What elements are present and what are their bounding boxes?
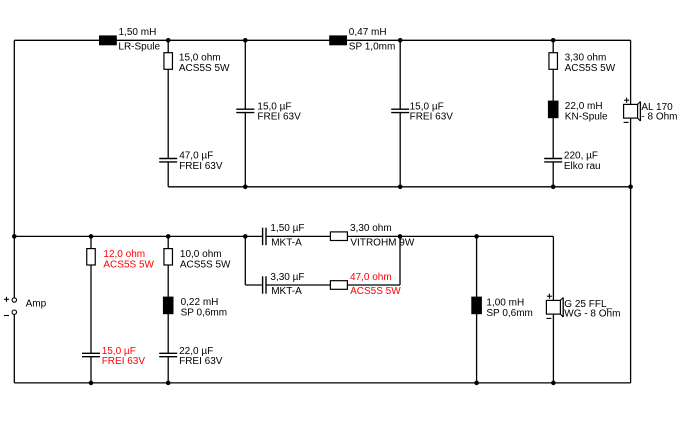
wire: [244, 40, 246, 109]
svg-text:Amp: Amp: [26, 299, 47, 310]
svg-text:ACS5S 5W: ACS5S 5W: [565, 63, 616, 74]
capacitor 47,0 uF FREI 63V: [159, 159, 177, 162]
wire: [167, 357, 169, 383]
inductor 22,0 mH KN-Spule: [548, 101, 559, 119]
node: [89, 381, 94, 386]
svg-text:SP 0,6mm: SP 0,6mm: [181, 307, 228, 318]
amp terminal +: [4, 297, 17, 302]
svg-text:3,30 ohm: 3,30 ohm: [350, 223, 392, 234]
node: [166, 38, 171, 43]
svg-text:- 8 Ohm: - 8 Ohm: [641, 112, 677, 123]
svg-text:0,47 mH: 0,47 mH: [349, 27, 387, 38]
svg-text:Elko rau: Elko rau: [564, 161, 601, 172]
svg-text:15,0 µF: 15,0 µF: [257, 101, 291, 112]
label resistor 12 ohm (red): [103, 249, 154, 270]
node: [166, 381, 171, 386]
svg-text:3,30 ohm: 3,30 ohm: [565, 52, 607, 63]
svg-text:1,50 µF: 1,50 µF: [270, 223, 304, 234]
resistor 3,30 ohm ACS5S 5W: [549, 53, 558, 70]
svg-text:3,30 µF: 3,30 µF: [270, 272, 304, 283]
node: [398, 234, 403, 239]
wire parallel branch left drop: [244, 236, 246, 285]
wire: [552, 162, 554, 187]
node: [166, 234, 171, 239]
capacitor 3,30 uF MKT-A: [263, 276, 266, 293]
svg-text:1,00 mH: 1,00 mH: [486, 298, 524, 309]
wire: [476, 236, 478, 383]
speaker G 25 FFL_WG - 8 Ohm: [546, 294, 563, 319]
wire: [399, 40, 401, 109]
label capacitor 15 uF second: [410, 101, 454, 122]
wire: [399, 113, 401, 187]
svg-text:SP 1,0mm: SP 1,0mm: [349, 41, 396, 52]
svg-text:12,0 ohm: 12,0 ohm: [103, 249, 145, 260]
wire from tweeter: [552, 314, 554, 383]
wire right column lower: [630, 118, 632, 383]
svg-text:1,50 mH: 1,50 mH: [119, 27, 157, 38]
node: [243, 185, 248, 190]
svg-text:47,0 µF: 47,0 µF: [179, 151, 213, 162]
svg-text:KN-Spule: KN-Spule: [565, 112, 608, 123]
node: [243, 38, 248, 43]
node: [551, 381, 556, 386]
svg-text:WG - 8 Ohm: WG - 8 Ohm: [564, 309, 620, 320]
wire: [167, 69, 169, 158]
wire left column lower: [13, 314, 15, 383]
node: [551, 185, 556, 190]
node: [12, 234, 17, 239]
resistor 3,30 ohm VITROHM 9W: [330, 232, 347, 241]
label capacitor 15 uF (red): [102, 346, 146, 367]
svg-text:FREI 63V: FREI 63V: [257, 112, 301, 123]
label resistor 15 ohm: [179, 52, 230, 73]
svg-text:220, µF: 220, µF: [564, 151, 598, 162]
wire: [245, 284, 262, 286]
capacitor 15,0 uF FREI 63V (first): [236, 109, 254, 112]
label capacitor 22 uF: [179, 346, 223, 367]
wire: [90, 265, 92, 353]
resistor 47,0 ohm ACS5S 5W: [330, 281, 347, 290]
svg-text:ACS5S 5W: ACS5S 5W: [180, 259, 231, 270]
label inductor 0,22 mH: [181, 297, 228, 318]
node: [551, 38, 556, 43]
svg-text:MKT-A: MKT-A: [271, 237, 302, 248]
svg-text:FREI 63V: FREI 63V: [410, 112, 454, 123]
svg-text:22,0 µF: 22,0 µF: [179, 346, 213, 357]
amp terminal -: [4, 310, 17, 316]
node: [243, 234, 248, 239]
svg-text:47,0 ohm: 47,0 ohm: [350, 272, 392, 283]
svg-text:VITROHM 9W: VITROHM 9W: [350, 237, 414, 248]
wire bottom-section feed rail left: [14, 235, 262, 237]
svg-text:22,0 mH: 22,0 mH: [565, 101, 603, 112]
svg-text:LR-Spule: LR-Spule: [118, 41, 160, 52]
wire bottom rail: [14, 382, 630, 384]
wire: [167, 265, 169, 353]
capacitor 1,50 uF MKT-A: [263, 228, 266, 245]
node: [474, 234, 479, 239]
node: [628, 185, 633, 190]
resistor 10,0 ohm ACS5S 5W: [164, 249, 173, 265]
label capacitor 47 uF: [179, 151, 223, 172]
svg-text:FREI 63V: FREI 63V: [179, 161, 223, 172]
wire: [167, 236, 169, 248]
capacitor 220 uF Elko rau: [544, 159, 562, 162]
node: [398, 185, 403, 190]
wire bottom-section feed rail right: [266, 235, 553, 237]
wire: [552, 40, 554, 158]
wire top-section return rail: [168, 186, 630, 188]
svg-text:FREI 63V: FREI 63V: [179, 356, 223, 367]
resistor 12,0 ohm ACS5S 5W: [87, 249, 96, 265]
capacitor 15,0 uF FREI 63V (second): [391, 109, 409, 112]
svg-text:ACS5S 5W: ACS5S 5W: [350, 286, 401, 297]
svg-text:15,0 ohm: 15,0 ohm: [179, 52, 221, 63]
inductor 0,22 mH SP 0,6mm: [163, 297, 174, 315]
wire: [244, 113, 246, 187]
wire: [90, 357, 92, 383]
svg-text:10,0 ohm: 10,0 ohm: [180, 249, 222, 260]
resistor 15,0 ohm ACS5S 5W: [164, 53, 173, 70]
capacitor 15,0 uF FREI 63V (red): [82, 353, 100, 356]
svg-text:SP 0,6mm: SP 0,6mm: [486, 308, 533, 319]
wire: [266, 284, 400, 286]
svg-text:15,0 µF: 15,0 µF: [102, 346, 136, 357]
label inductor 1,00 mH: [486, 298, 533, 319]
svg-text:ACS5S 5W: ACS5S 5W: [103, 259, 154, 270]
node: [89, 234, 94, 239]
wire right column to speaker: [630, 40, 632, 104]
svg-text:FREI 63V: FREI 63V: [102, 356, 146, 367]
svg-text:0,22 mH: 0,22 mH: [181, 297, 219, 308]
inductor 1,00 mH SP 0,6mm: [471, 297, 482, 315]
wire parallel branch right riser: [399, 236, 401, 285]
node: [474, 381, 479, 386]
speaker AL 170 - 8 Ohm: [624, 98, 641, 123]
label resistor 10 ohm: [180, 249, 231, 270]
node: [398, 38, 403, 43]
label resistor 3,30 ohm: [565, 52, 616, 73]
wire: [167, 40, 169, 52]
wire: [167, 162, 169, 187]
wire top rail: [14, 39, 630, 41]
svg-text:ACS5S 5W: ACS5S 5W: [179, 63, 230, 74]
inductor L2 0,47 mH SP 1,0mm: [329, 35, 347, 45]
label capacitor 15 uF first: [257, 101, 301, 122]
label capacitor 220 uF: [564, 151, 601, 172]
wire: [90, 236, 92, 248]
label inductor 22 mH: [565, 101, 608, 122]
inductor L1 1,50 mH LR-Spule: [99, 35, 117, 45]
wire left column upper: [13, 40, 15, 298]
wire to tweeter: [552, 236, 554, 300]
svg-text:MKT-A: MKT-A: [271, 286, 302, 297]
svg-text:15,0 µF: 15,0 µF: [410, 101, 444, 112]
capacitor 22,0 uF FREI 63V: [159, 353, 177, 356]
